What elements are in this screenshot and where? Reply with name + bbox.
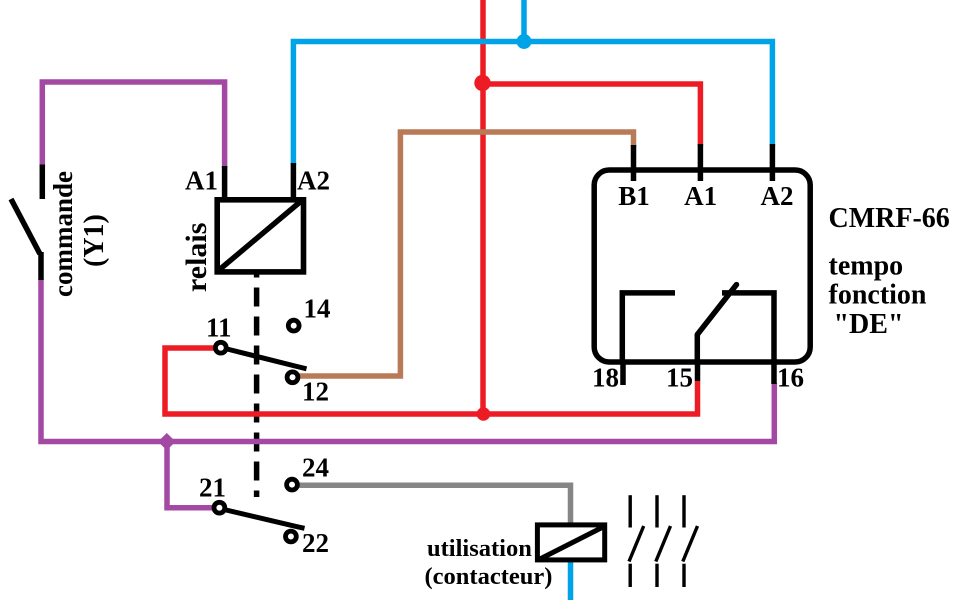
svg-text:15: 15: [666, 363, 693, 393]
svg-text:18: 18: [592, 363, 619, 393]
svg-text:fonction: fonction: [829, 280, 927, 311]
svg-text:A1: A1: [684, 181, 717, 211]
svg-text:relais: relais: [180, 223, 213, 292]
svg-text:11: 11: [206, 312, 232, 342]
svg-text:12: 12: [302, 376, 329, 406]
svg-text:A2: A2: [297, 165, 330, 195]
svg-text:B1: B1: [618, 181, 650, 211]
svg-text:16: 16: [777, 363, 804, 393]
svg-text:(contacteur): (contacteur): [425, 563, 553, 590]
svg-text:22: 22: [302, 528, 329, 558]
svg-text:tempo: tempo: [829, 251, 904, 282]
svg-text:"DE": "DE": [834, 309, 904, 340]
svg-text:CMRF-66: CMRF-66: [829, 203, 950, 234]
svg-text:14: 14: [304, 293, 331, 323]
svg-text:21: 21: [199, 472, 226, 502]
svg-text:(Y1): (Y1): [79, 214, 110, 267]
svg-text:utilisation: utilisation: [427, 535, 532, 562]
svg-text:A2: A2: [761, 181, 794, 211]
svg-text:24: 24: [302, 452, 329, 482]
svg-text:A1: A1: [185, 165, 218, 195]
svg-text:commande: commande: [48, 171, 78, 297]
